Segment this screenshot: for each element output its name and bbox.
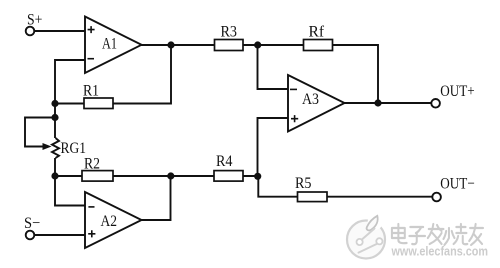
svg-text:R4: R4 xyxy=(216,153,233,170)
svg-text:R3: R3 xyxy=(221,23,238,40)
svg-text:A3: A3 xyxy=(302,91,319,108)
svg-text:R1: R1 xyxy=(83,83,99,100)
svg-text:R2: R2 xyxy=(84,156,100,173)
svg-text:www.elecfans.com: www.elecfans.com xyxy=(391,244,488,259)
svg-text:R5: R5 xyxy=(295,175,312,192)
svg-text:S+: S+ xyxy=(27,12,42,29)
svg-text:A1: A1 xyxy=(102,36,117,53)
svg-text:S−: S− xyxy=(24,215,40,232)
svg-text:Rf: Rf xyxy=(309,24,325,41)
svg-text:OUT+: OUT+ xyxy=(440,83,474,100)
svg-text:A2: A2 xyxy=(101,213,118,230)
svg-text:RG1: RG1 xyxy=(61,140,87,157)
svg-text:OUT−: OUT− xyxy=(440,175,474,192)
